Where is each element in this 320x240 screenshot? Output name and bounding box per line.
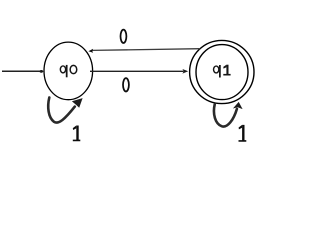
state q0 circle <box>44 42 93 100</box>
start arrow into q0 <box>2 70 44 73</box>
label 1 (right) <box>239 125 247 142</box>
label 1 (left) <box>73 126 81 142</box>
state q1 accepting double circle <box>190 40 254 103</box>
state label q0 <box>60 65 76 77</box>
label 0 (top) <box>121 30 127 43</box>
transition q0 to q1 (bottom line, label 0) <box>90 69 188 74</box>
label 0 (bottom) <box>123 78 129 91</box>
state label q1 <box>214 65 231 78</box>
self-loop at q0 (label 1) <box>48 98 82 123</box>
transition q1 to q0 (top line, label 0) <box>88 49 200 53</box>
self-loop at q1 (label 1) <box>214 102 243 127</box>
